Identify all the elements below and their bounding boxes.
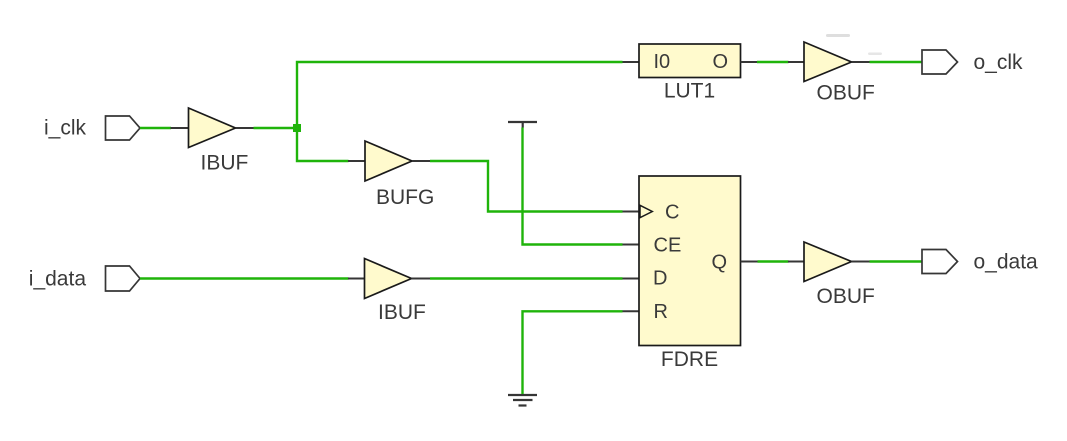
wire i_clk port to IBUF <box>140 127 171 129</box>
wire ground to FDRE R <box>523 311 623 394</box>
svg-text:i_data: i_data <box>29 268 87 291</box>
port o_clk <box>922 50 958 74</box>
wire BUFG to FDRE C <box>430 161 623 212</box>
port i_clk <box>106 116 141 140</box>
power VCC symbol <box>508 122 537 128</box>
buffer U4 BUFG <box>365 141 412 181</box>
IBUF U6 input pin stub <box>348 278 365 280</box>
wire OBUF to port o_clk <box>870 61 923 63</box>
BUFG U4 input pin stub <box>348 160 365 162</box>
ground symbol <box>508 395 537 406</box>
FDRE R pin stub <box>623 310 640 312</box>
svg-text:CE: CE <box>654 235 682 257</box>
svg-text:o_data: o_data <box>974 251 1039 274</box>
wire IBUF to FDRE D <box>430 277 623 279</box>
FDRE clock pin C stub <box>623 211 640 213</box>
svg-text:Q: Q <box>712 252 728 274</box>
FDRE Q pin stub <box>741 261 758 263</box>
FDRE D pin stub <box>623 278 640 280</box>
svg-text:BUFG: BUFG <box>376 186 434 209</box>
OBUF U3 input pin stub <box>788 61 804 63</box>
OBUF U7 output pin stub <box>852 261 870 263</box>
svg-text:D: D <box>653 268 667 290</box>
OBUF U3 output pin stub <box>852 61 870 63</box>
buffer U6 IBUF <box>365 259 412 299</box>
LUT U2 LUT1 <box>639 44 741 78</box>
FDRE CE pin stub <box>623 244 640 246</box>
svg-text:I0: I0 <box>654 51 671 73</box>
port o_data <box>922 250 958 274</box>
wire LUT1 to OBUF <box>757 61 789 63</box>
buffer U1 IBUF <box>189 108 236 148</box>
wire i_data port to IBUF <box>140 277 349 279</box>
svg-text:i_clk: i_clk <box>44 117 87 140</box>
wire OBUF to port o_data <box>870 260 923 262</box>
IBUF U6 output pin stub <box>412 278 431 280</box>
wire IBUF out to junction <box>254 127 298 129</box>
wire FDRE Q to OBUF <box>758 260 789 262</box>
wire junction up to LUT1 input <box>297 62 623 128</box>
LUT1 output pin O stub <box>741 61 758 63</box>
port i_data <box>106 266 141 291</box>
buffer U3 OBUF <box>804 42 852 82</box>
wire VCC to FDRE CE <box>523 128 623 245</box>
flip-flop U5 FDRE <box>639 176 741 346</box>
svg-text:o_clk: o_clk <box>974 51 1024 74</box>
IBUF U1 input pin stub <box>171 127 189 129</box>
svg-text:IBUF: IBUF <box>378 301 426 324</box>
OBUF U7 input pin stub <box>788 261 804 263</box>
wire junction down to BUFG <box>297 128 349 161</box>
LUT1 U2 input pin I0 stub <box>623 61 640 63</box>
IBUF U1 output pin stub <box>236 127 254 129</box>
svg-text:FDRE: FDRE <box>661 348 718 371</box>
BUFG U4 output pin stub <box>412 160 430 162</box>
svg-text:R: R <box>654 301 668 323</box>
svg-text:LUT1: LUT1 <box>664 80 715 103</box>
svg-text:OBUF: OBUF <box>817 285 875 308</box>
junction clk node <box>293 124 301 132</box>
svg-text:OBUF: OBUF <box>817 82 875 105</box>
svg-text:C: C <box>665 202 679 224</box>
svg-text:IBUF: IBUF <box>201 152 249 175</box>
svg-text:O: O <box>713 51 729 73</box>
FDRE clock chevron <box>640 205 652 217</box>
buffer U7 OBUF <box>804 242 852 282</box>
